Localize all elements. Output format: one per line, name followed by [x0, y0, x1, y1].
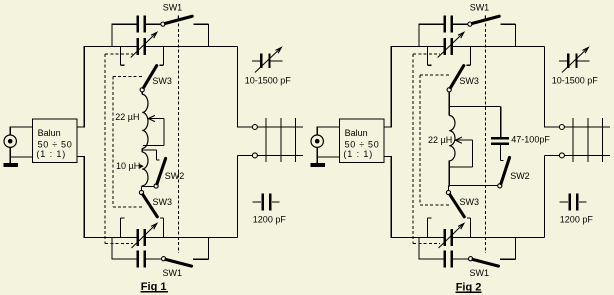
wire right riser bottom — [543, 155, 545, 237]
switch SW1 bottom lever — [166, 260, 192, 267]
svg-text:1200 pF: 1200 pF — [253, 215, 287, 225]
wire SW3 bottom stem (Fig 1) — [141, 187, 143, 191]
svg-text:Balun: Balun — [345, 128, 368, 138]
wire SW3 bottom stem (Fig 2) — [448, 185, 450, 190]
inner coil shield dashed outline (Fig 2) — [419, 75, 421, 205]
wire bottom branch left — [111, 258, 136, 260]
svg-text:22 µH: 22 µH — [428, 135, 452, 145]
wire cap to SW2 contact (Fig 2) — [499, 145, 501, 161]
svg-text:SW1: SW1 — [163, 2, 183, 12]
SW3 bottom throw contact right — [162, 218, 164, 238]
tap wiper arrow into 22 uH coil (Fig 2) — [455, 137, 462, 143]
wire main bottom right — [146, 236, 237, 238]
variable capacitor legend 10-1500 pF — [559, 60, 567, 62]
switch SW1 top pivot — [468, 22, 472, 26]
wire main top left — [391, 45, 444, 47]
tap wiper arrow into 22 uH coil — [148, 115, 155, 121]
inductor 22 uH (Fig 2) — [449, 116, 455, 161]
shield enclosure dashed outline — [104, 54, 106, 243]
svg-text:(1 : 1): (1 : 1) — [343, 149, 373, 159]
switch SW3 bottom lever (Fig 1) — [143, 195, 157, 217]
wire left riser top — [83, 46, 85, 127]
output terminal top — [252, 125, 257, 130]
wire cap to SW1 bottom — [453, 258, 469, 260]
capacitor top branch fixed — [137, 16, 139, 33]
capacitor bottom branch fixed — [444, 250, 446, 267]
wire cap to SW1 — [146, 23, 161, 25]
SW3 top throw contact right — [162, 46, 164, 65]
wire top branch left drop — [111, 24, 113, 46]
capacitor legend 1200 pF — [559, 201, 568, 203]
wire tap loop (Fig 1) — [163, 119, 165, 146]
coax input connector (Fig 2) — [311, 135, 323, 147]
SW2 throw contact bracket (Fig 1) — [143, 149, 157, 151]
wire left riser top — [390, 46, 392, 127]
wire right riser bottom — [236, 155, 238, 237]
switch SW2 pivot (Fig 1) — [154, 184, 158, 188]
wire connector center pin to balun input — [9, 127, 11, 135]
wire balun top output — [77, 126, 84, 128]
variable capacitor series top — [137, 38, 139, 55]
wire main top left — [84, 45, 137, 47]
svg-text:SW1: SW1 — [470, 2, 490, 12]
wire bottom branch left drop — [111, 237, 113, 258]
feeder spreader bars — [572, 118, 574, 162]
svg-text:SW1: SW1 — [163, 268, 183, 278]
capacitor top branch fixed — [444, 16, 446, 33]
wire main bottom left — [391, 236, 444, 238]
wire main bottom left — [84, 236, 137, 238]
switch SW1 top lever — [472, 16, 499, 23]
inner coil shield dashed outline (Fig 1) — [112, 76, 114, 207]
wire top branch left — [111, 23, 136, 25]
wire top branch left drop — [418, 24, 420, 46]
coax input connector (Fig 1) — [4, 135, 16, 147]
variable capacitor series bottom — [137, 229, 139, 246]
wire right riser top — [236, 46, 238, 127]
svg-text:(1 : 1): (1 : 1) — [36, 149, 66, 159]
wire coil bottom stem (Fig 1) — [141, 185, 143, 187]
switch SW1 bottom pivot — [162, 257, 166, 261]
wire bottom branch left — [418, 258, 443, 260]
SW1 gang dashed link — [484, 15, 486, 19]
SW3 top throw contact left — [427, 46, 429, 65]
wire main top right — [146, 45, 237, 47]
wire feeder top — [257, 126, 303, 128]
SW1 gang dashed link — [177, 15, 179, 19]
wire left riser bottom — [390, 156, 392, 238]
output terminal bottom — [252, 153, 257, 158]
switch SW2 pivot (Fig 2) — [498, 184, 502, 188]
wire SW1 top fixed contact — [500, 23, 515, 25]
svg-text:SW3: SW3 — [153, 197, 173, 207]
svg-text:10-1500 pF: 10-1500 pF — [245, 76, 292, 86]
switch SW3 bottom pivot (Fig 2) — [446, 190, 450, 194]
balun box — [340, 119, 385, 163]
balun box — [33, 119, 78, 163]
switch SW3 top pivot — [140, 88, 144, 92]
wire output top — [237, 126, 252, 128]
wire cap to SW1 — [453, 23, 468, 25]
ground — [310, 163, 324, 167]
wire SW1 top fixed contact — [193, 23, 208, 25]
output terminal bottom — [559, 153, 564, 158]
wire output bottom — [237, 154, 252, 156]
wire coil bottom stem (Fig 2) — [448, 161, 450, 187]
wire SW3 pivot to coil (Fig 2) — [448, 92, 450, 116]
SW3 bottom throw contact right — [469, 218, 471, 238]
wire bottom branch left drop — [418, 237, 420, 258]
wire coil top to parallel cap (Fig 2) — [449, 105, 501, 107]
wire coil bottom to SW2 (Fig 2) — [449, 184, 497, 186]
switch SW3 bottom pivot (Fig 1) — [139, 190, 143, 194]
wire tap loop (Fig 2) — [471, 140, 473, 167]
wire output bottom — [544, 154, 559, 156]
svg-text:SW1: SW1 — [470, 268, 490, 278]
output terminal top — [559, 125, 564, 130]
wire SW1 bottom fixed contact — [193, 258, 208, 260]
svg-text:10-1500 pF: 10-1500 pF — [552, 76, 599, 86]
wire connector shield to balun return — [316, 147, 318, 163]
wire coil junction stem (Fig 1) — [141, 148, 143, 152]
feeder spreader bars — [265, 118, 267, 162]
svg-text:SW2: SW2 — [510, 171, 530, 181]
svg-text:10 µH: 10 µH — [116, 161, 140, 171]
wire feeder top — [564, 126, 610, 128]
SW3 bottom throw contact left — [427, 218, 429, 238]
wire balun bottom output — [384, 155, 391, 157]
switch SW1 top lever — [165, 16, 192, 23]
inductor 22 uH (Fig 1) — [142, 94, 148, 148]
wire balun bottom output — [77, 155, 84, 157]
svg-text:SW3: SW3 — [459, 76, 479, 86]
tap arrow into 10 uH coil — [140, 164, 144, 168]
ground — [3, 163, 17, 167]
shield enclosure dashed outline — [412, 54, 414, 243]
capacitor legend 1200 pF — [252, 201, 261, 203]
switch SW1 bottom pivot — [469, 257, 473, 261]
switch SW1 top pivot — [161, 22, 165, 26]
wire cap to SW1 bottom — [146, 258, 162, 260]
wire feeder bottom — [564, 154, 610, 156]
wire balun top output — [384, 126, 391, 128]
switch SW3 bottom lever (Fig 2) — [450, 195, 464, 217]
variable capacitor series bottom — [444, 229, 446, 246]
wire connector center pin to balun input — [316, 127, 318, 135]
wire top branch left — [418, 23, 443, 25]
capacitor 47-100pF (Fig 2) — [491, 137, 509, 139]
capacitor bottom branch fixed — [137, 250, 139, 267]
svg-text:SW3: SW3 — [152, 76, 172, 86]
wire SW1 bottom fixed contact — [500, 258, 515, 260]
svg-text:47-100pF: 47-100pF — [511, 134, 550, 144]
wire right riser top — [543, 46, 545, 127]
wire left riser bottom — [83, 156, 85, 238]
switch SW3 top pivot — [447, 88, 451, 92]
svg-text:22 µH: 22 µH — [115, 112, 139, 122]
wire connector shield to balun return — [9, 147, 11, 163]
svg-text:SW3: SW3 — [460, 197, 480, 207]
wire main bottom right — [453, 236, 544, 238]
inductor 10 uH (Fig 1) — [142, 152, 148, 186]
svg-text:1200 pF: 1200 pF — [560, 215, 594, 225]
wire SW3 pivot to coil (Fig 1) — [141, 92, 143, 95]
wire feeder bottom — [257, 154, 303, 156]
switch SW2 lever (Fig 1) — [157, 159, 166, 184]
variable capacitor legend 10-1500 pF — [252, 60, 260, 62]
svg-text:Balun: Balun — [38, 128, 61, 138]
wire coil bottom to SW2 (Fig 1) — [142, 186, 154, 188]
SW3 top throw contact right — [469, 46, 471, 65]
switch SW2 lever (Fig 2) — [501, 158, 510, 184]
switch SW3 top lever — [144, 66, 157, 88]
switch SW3 top lever — [451, 66, 464, 88]
wire output top — [544, 126, 559, 128]
SW3 bottom throw contact left — [120, 218, 122, 238]
variable capacitor series top — [444, 38, 446, 55]
switch SW1 bottom lever — [473, 260, 499, 267]
svg-text:SW2: SW2 — [165, 171, 185, 181]
wire main top right — [453, 45, 544, 47]
SW3 top throw contact left — [120, 46, 122, 65]
